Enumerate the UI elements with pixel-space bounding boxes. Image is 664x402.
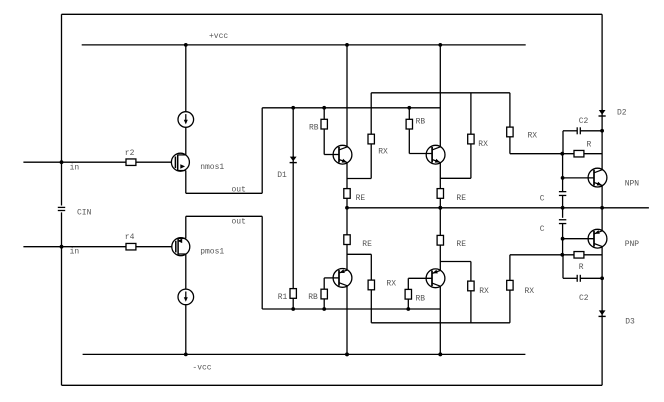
svg-text:RE: RE [456, 194, 466, 203]
wire in bottom left [23, 246, 126, 248]
svg-text:RX: RX [378, 147, 388, 156]
resistor RX2 [468, 134, 474, 144]
wire Q1 collector [346, 45, 348, 147]
wire Q2b emitter [439, 245, 441, 270]
wire r2 to nmos1 gate [136, 161, 172, 163]
svg-text:RB: RB [416, 295, 426, 304]
+vcc rail [82, 44, 526, 46]
junction PNP base [561, 237, 565, 241]
wire NPN emitter to rail [601, 186, 603, 208]
svg-text:-vcc: -vcc [192, 363, 211, 372]
junction bias bus / D1 [291, 106, 295, 110]
wire in top left [23, 161, 126, 163]
junction output rail / RE1 [345, 206, 349, 210]
outer box top border [62, 13, 603, 15]
svg-text:RB: RB [308, 293, 318, 302]
resistor r4 [126, 243, 136, 250]
wire out top horizontal [186, 192, 262, 194]
junction -vcc / current source I2 [184, 353, 188, 357]
resistor RX1 [368, 134, 374, 144]
wire nmos1 source down [185, 171, 187, 194]
capacitor CIN [58, 206, 65, 208]
svg-text:in: in [70, 163, 80, 172]
capacitor C bottom [559, 219, 566, 221]
wire bottom bias bus [262, 308, 440, 310]
resistor RE1 [344, 189, 350, 199]
outer box bottom border [62, 384, 603, 386]
wire RB2b to Q2b base [407, 278, 409, 289]
svg-text:out: out [232, 185, 246, 194]
wire R bottom line [510, 254, 574, 256]
resistor RX3 [507, 127, 513, 137]
output rail [347, 207, 649, 209]
wire Q2 collector [439, 45, 441, 147]
wire C bottom to base node [562, 224, 564, 255]
junction bottom bus / RB2b [406, 307, 410, 311]
capacitor C2 bottom [563, 277, 577, 279]
wire PNP emitter to rail [601, 208, 603, 231]
svg-text:PNP: PNP [625, 240, 640, 249]
diode D2 [601, 110, 603, 117]
transistor Q1 [333, 145, 352, 164]
resistor RE2b [437, 235, 443, 245]
wire I2 to -vcc [185, 305, 187, 355]
node in (bottom) [60, 245, 64, 249]
wire C2 corner [562, 131, 564, 154]
svg-text:RX: RX [525, 287, 535, 296]
wire RX1 bottom to Q1 emitter [370, 144, 372, 179]
wire D2 to NPN collector [601, 116, 603, 170]
wire R bottom to output device [584, 254, 602, 256]
svg-text:R1: R1 [278, 293, 288, 302]
resistor RE1b [344, 235, 350, 245]
wire pmos1 source to I2 [185, 254, 187, 289]
wire PNP base line [563, 238, 594, 240]
wire Q1b emitter [346, 245, 348, 271]
resistor R top [574, 150, 584, 157]
capacitor C2 top [563, 130, 577, 132]
svg-text:RE: RE [362, 240, 372, 249]
diode D1 [292, 156, 294, 163]
wire RX3 top corner [509, 93, 511, 127]
junction top bus / RB1 [322, 106, 326, 110]
svg-text:NPN: NPN [625, 180, 640, 189]
wire right border top [601, 14, 603, 110]
svg-text:C2: C2 [579, 117, 589, 126]
svg-text:RB: RB [309, 124, 319, 133]
svg-text:r4: r4 [125, 233, 135, 242]
diode D3 [601, 310, 603, 317]
svg-text:pmos1: pmos1 [200, 247, 224, 256]
wire RB2 to Q2 base [408, 129, 410, 154]
wire PNP collector down [601, 247, 603, 311]
wire C2 bottom corner [562, 255, 564, 278]
wire rail to RE1b [346, 208, 348, 235]
wire RX3b bottom corner [509, 290, 511, 323]
wire RX3 to R line [509, 137, 511, 154]
wire Q1b collector [346, 286, 348, 355]
svg-text:RX: RX [479, 287, 489, 296]
wire Q1b emitter to RX1b [347, 253, 371, 255]
wire out bottom vertical [261, 216, 263, 309]
junction +vcc / Q2 collector [438, 43, 442, 47]
resistor RX3b [507, 280, 513, 290]
wire I1 to nmos1 drain [185, 127, 187, 155]
wire +vcc to I1 [185, 45, 187, 112]
-vcc rail [83, 353, 526, 355]
wire RB1 to Q1 base [323, 129, 325, 155]
svg-text:C: C [540, 194, 545, 203]
wire D3 to bottom border [601, 316, 603, 385]
svg-text:r2: r2 [125, 149, 135, 158]
resistor r2 [126, 159, 136, 166]
resistor R1 [290, 289, 296, 299]
wire RX1 top [370, 93, 372, 134]
current source I2 [178, 289, 194, 305]
junction -vcc / Q1b [345, 353, 349, 357]
wire RB2b bottom [407, 299, 409, 309]
wire R1 bottom [292, 298, 294, 309]
wire top feedback bus [371, 92, 510, 94]
resistor RB2 [406, 119, 412, 129]
svg-text:C: C [540, 225, 545, 234]
outer box left border with input node column [61, 14, 63, 205]
wire RX2 bottom to Q2 emitter [470, 144, 472, 178]
resistor RB1b [321, 289, 327, 299]
wire rail to RE2b [439, 208, 441, 236]
nmos transistor nmos1 [171, 153, 189, 171]
junction NPN base [561, 176, 565, 180]
svg-text:RX: RX [478, 140, 488, 149]
junction -vcc / Q2b [438, 353, 442, 357]
transistor Q2b [426, 269, 445, 288]
junction rail / C branch [561, 206, 565, 210]
junction +vcc / Q1 collector [345, 43, 349, 47]
junction C2 / D2 node [600, 129, 604, 133]
capacitor C top [559, 191, 566, 193]
pmos transistor pmos1 [172, 238, 190, 256]
wire RE2 to rail [439, 198, 441, 208]
svg-text:D1: D1 [277, 171, 287, 180]
wire bias divider vertical [562, 154, 564, 192]
junction rail / NPN emitter [600, 206, 604, 210]
wire R to output device [584, 153, 602, 155]
junction R line bottom / C2 branch [560, 253, 564, 257]
wire NPN base line [563, 177, 594, 179]
wire RB1b to Q1b base [323, 278, 325, 289]
svg-text:RX: RX [528, 132, 538, 141]
current source I1 [178, 112, 194, 128]
svg-text:CIN: CIN [77, 209, 92, 218]
svg-text:R: R [579, 263, 584, 272]
node in (top) [60, 160, 64, 164]
resistor RX2b [468, 281, 474, 291]
svg-text:RX: RX [386, 279, 396, 288]
wire Q2b collector [439, 286, 441, 354]
svg-text:RE: RE [356, 194, 366, 203]
junction top bus / RB2 [407, 106, 411, 110]
svg-text:D2: D2 [617, 109, 627, 118]
svg-text:nmos1: nmos1 [200, 163, 224, 172]
svg-text:+vcc: +vcc [209, 32, 228, 41]
wire out bottom horizontal [186, 215, 262, 217]
wire RB2 top [408, 108, 410, 120]
resistor RX1b [368, 280, 374, 290]
svg-text:C2: C2 [579, 294, 589, 303]
wire rail to C bottom [562, 208, 564, 218]
resistor R bottom [574, 252, 584, 258]
junction rail / RE2b [438, 206, 442, 210]
wire top bias bus [262, 107, 440, 109]
wire Q2 emitter [439, 163, 441, 189]
wire RB1 top [323, 108, 325, 120]
junction R line / C2 branch [560, 152, 564, 156]
wire RX3b to R bottom line [509, 255, 511, 281]
transistor NPN output [588, 168, 607, 187]
junction output rail / RE2 [438, 206, 442, 210]
wire RE1 to rail [346, 198, 348, 208]
junction bottom bus / RB1b [322, 307, 326, 311]
svg-text:RB: RB [416, 117, 426, 126]
wire bottom feedback bus [371, 322, 510, 324]
junction -vcc / Q1b collector [345, 353, 349, 357]
wire RX2b top [470, 262, 472, 282]
wire RX1b bottom [370, 290, 372, 323]
junction +vcc / current source I1 [184, 43, 188, 47]
resistor RB2b [405, 289, 411, 299]
wire Q2b emitter to RX2b [440, 261, 471, 263]
wire RX1b top [370, 254, 372, 280]
junction -vcc / Q2b collector [438, 353, 442, 357]
wire r4 to pmos1 gate [136, 246, 172, 248]
resistor RB1 [321, 119, 327, 129]
svg-text:D3: D3 [625, 318, 635, 327]
wire D1 top [292, 108, 294, 157]
wire RX2b bottom [470, 291, 472, 323]
wire Q1 emitter [346, 163, 348, 189]
transistor Q2 [426, 145, 445, 164]
svg-text:RE: RE [456, 240, 466, 249]
svg-text:out: out [232, 218, 246, 227]
wire RX2 top [470, 93, 472, 134]
transistor PNP output [588, 229, 607, 248]
junction bottom bus / R1 [291, 307, 295, 311]
wire RB1b bottom [323, 299, 325, 309]
junction C2 bottom / D3 node [600, 276, 604, 280]
wire D1 to R1 [292, 163, 294, 289]
svg-text:R: R [587, 140, 592, 149]
resistor RE2 [437, 189, 443, 199]
svg-text:in: in [70, 248, 80, 257]
wire pmos1 drain up [185, 216, 187, 238]
transistor Q1b [333, 269, 352, 288]
wire out top vertical [261, 108, 263, 194]
wire C to rail [562, 196, 564, 208]
